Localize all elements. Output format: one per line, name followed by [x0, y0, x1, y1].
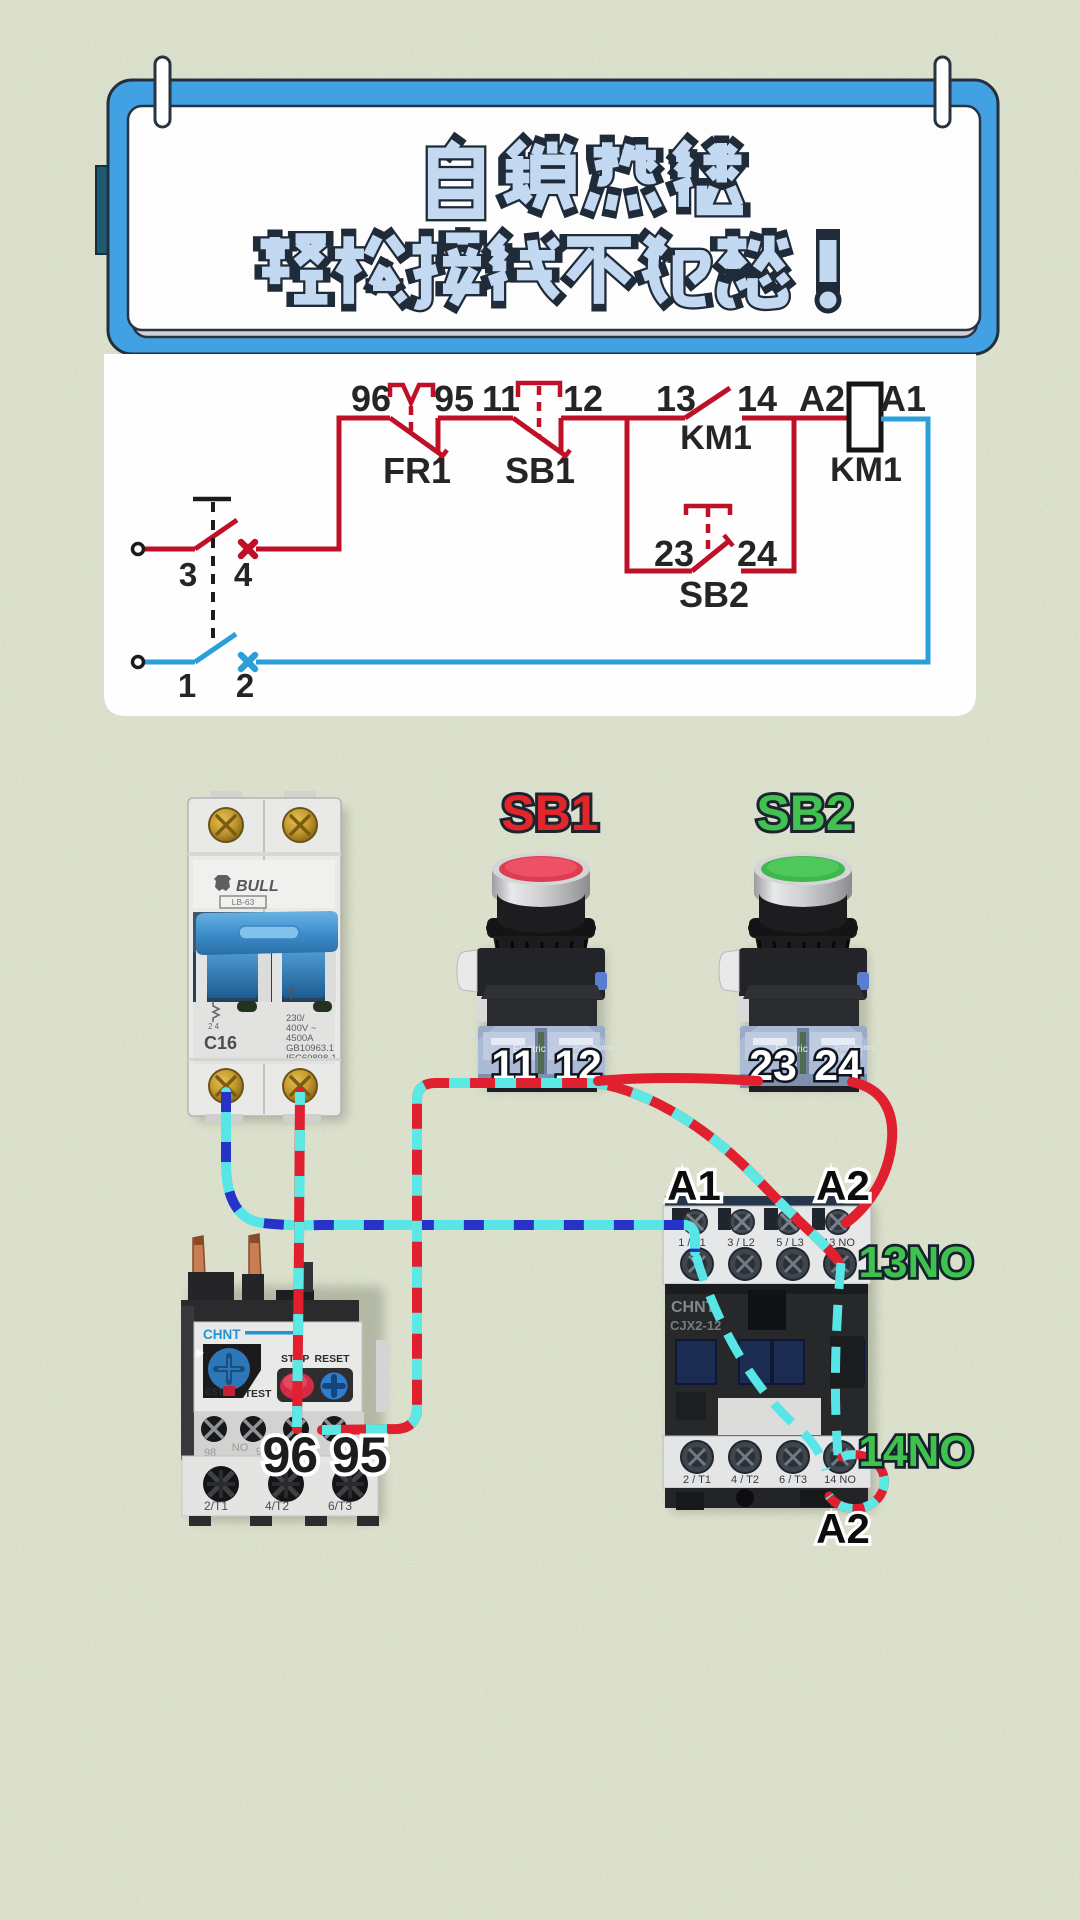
svg-text:KM1: KM1: [830, 451, 902, 489]
svg-text:FR1: FR1: [383, 450, 451, 491]
svg-text:14 NO: 14 NO: [824, 1474, 856, 1486]
svg-text:96 95: 96 95: [262, 1427, 387, 1483]
svg-text:TEST: TEST: [245, 1388, 272, 1400]
svg-text:SB2: SB2: [756, 785, 853, 841]
svg-text:KM1: KM1: [680, 419, 752, 457]
svg-text:13NO: 13NO: [859, 1238, 974, 1287]
svg-text:6 / T3: 6 / T3: [779, 1474, 807, 1486]
svg-text:CHNT: CHNT: [203, 1327, 241, 1342]
svg-text:1: 1: [178, 667, 196, 704]
svg-text:RESET: RESET: [314, 1353, 350, 1365]
svg-text:BULL: BULL: [236, 878, 279, 895]
svg-text:23: 23: [654, 533, 694, 574]
svg-text:SB2: SB2: [679, 574, 749, 615]
svg-text:EST: EST: [205, 1387, 224, 1398]
svg-text:LB-63: LB-63: [232, 897, 255, 907]
svg-text:4: 4: [234, 556, 253, 593]
svg-text:5 / L3: 5 / L3: [776, 1237, 804, 1249]
svg-text:6/T3: 6/T3: [328, 1499, 352, 1513]
svg-text:C16: C16: [204, 1033, 237, 1053]
svg-text:11: 11: [482, 378, 520, 419]
svg-text:13: 13: [656, 378, 696, 419]
svg-text:24: 24: [737, 533, 777, 574]
svg-text:A1: A1: [667, 1162, 721, 1209]
svg-text:2 / T1: 2 / T1: [683, 1474, 711, 1486]
svg-text:4 / T2: 4 / T2: [731, 1474, 759, 1486]
svg-text:2 4: 2 4: [208, 1022, 220, 1031]
svg-text:95: 95: [434, 378, 474, 419]
svg-text:A2: A2: [816, 1505, 870, 1552]
svg-text:14NO: 14NO: [859, 1427, 974, 1476]
svg-text:4/T2: 4/T2: [265, 1499, 289, 1513]
svg-text:3 / L2: 3 / L2: [727, 1237, 755, 1249]
svg-text:A2: A2: [816, 1162, 870, 1209]
svg-text:NO: NO: [232, 1442, 249, 1454]
svg-text:A1: A1: [880, 378, 926, 419]
svg-text:3: 3: [179, 556, 197, 593]
svg-text:96: 96: [351, 378, 391, 419]
svg-text:A2: A2: [799, 378, 845, 419]
svg-text:14: 14: [737, 378, 777, 419]
svg-text:CJX2-12: CJX2-12: [670, 1318, 721, 1333]
svg-text:SB1: SB1: [505, 450, 575, 491]
svg-text:2: 2: [236, 667, 254, 704]
svg-text:SB1: SB1: [501, 785, 598, 841]
svg-text:2/T1: 2/T1: [204, 1499, 228, 1513]
svg-text:12: 12: [563, 378, 603, 419]
